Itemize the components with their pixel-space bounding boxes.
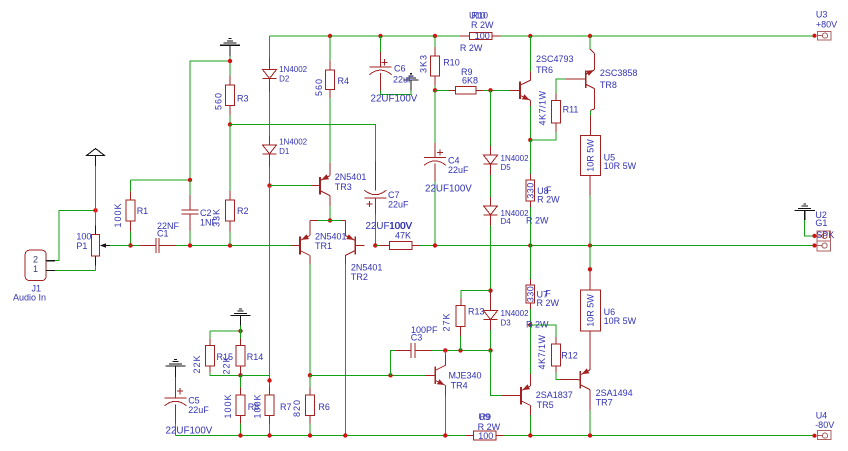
svg-text:22K: 22K xyxy=(221,355,231,374)
svg-text:2SC4793: 2SC4793 xyxy=(536,54,574,64)
wire: C3 branch riser xyxy=(391,350,396,375)
wire: R15 bottom to divider node xyxy=(210,373,241,376)
wire: ground net to R3 top and C2/R1 branch xyxy=(229,56,231,76)
svg-text:TR6: TR6 xyxy=(536,65,553,75)
wire: R11 top to TR8 base xyxy=(556,79,566,93)
junction dot D3 top / R13 link xyxy=(488,288,492,292)
wire: C6 bottom elbow to earth xyxy=(381,91,412,95)
svg-text:-80V: -80V xyxy=(815,420,834,430)
svg-text:22UF100V: 22UF100V xyxy=(371,93,418,104)
wire: J1 pin1 to P1 bottom xyxy=(55,269,96,271)
svg-text:C6: C6 xyxy=(394,64,406,74)
svg-text:10R 5W: 10R 5W xyxy=(586,294,596,327)
junction dot output rail at 330 column xyxy=(528,243,532,247)
svg-text:R9: R9 xyxy=(480,412,492,422)
resistor R10 3K3 xyxy=(418,47,459,86)
svg-text:100: 100 xyxy=(475,31,490,41)
wire: TR6 emitter node to R11 bottom xyxy=(530,132,556,140)
junction dot signal at C2 xyxy=(188,243,192,247)
junction dot signal at R1 xyxy=(128,243,132,247)
wire: R1 top to C2 top link xyxy=(131,179,191,181)
svg-text:R 2W: R 2W xyxy=(537,195,560,205)
svg-text:R 2W: R 2W xyxy=(537,298,560,308)
wire: divider node to R7 column xyxy=(241,375,270,385)
svg-text:P1: P1 xyxy=(76,241,87,251)
junction dot G1 upper pin xyxy=(812,234,816,238)
resistor U5 10R 5W power box xyxy=(580,116,636,196)
wire: P1 wiper to signal line xyxy=(110,245,131,247)
svg-text:C7: C7 xyxy=(388,190,400,200)
capacitor C3 100PF xyxy=(395,325,438,358)
svg-text:27K: 27K xyxy=(442,312,452,331)
svg-text:22uF: 22uF xyxy=(393,75,414,85)
wire: R10 top from rail xyxy=(434,36,436,47)
svg-text:330: 330 xyxy=(526,182,536,199)
resistor 47K horizontal (TR2 base) xyxy=(379,230,420,249)
wire: R14 bottom green xyxy=(240,366,242,375)
wire: D1 bottom to TR3 base node xyxy=(269,167,271,186)
svg-text:10R 5W: 10R 5W xyxy=(604,161,637,171)
svg-text:2N5401: 2N5401 xyxy=(315,232,347,242)
junction dot output rail at G1 connector xyxy=(812,243,816,247)
resistor U9/R9 100 R 2W horizontal in bottom rail xyxy=(466,412,504,441)
resistor R6 820 xyxy=(292,388,330,424)
wire: D2 bottom to cross at y=124.5 xyxy=(269,92,271,136)
svg-text:560: 560 xyxy=(214,92,224,110)
junction dot P1 top node xyxy=(93,208,97,212)
wire: D4 bottom crossing output rail down to D3 top xyxy=(490,226,492,291)
resistor R3 560 xyxy=(214,76,249,116)
svg-text:22uF: 22uF xyxy=(448,165,469,175)
svg-text:820: 820 xyxy=(292,399,302,417)
svg-text:R 2W: R 2W xyxy=(526,319,549,329)
wire: R3 bottom to feedback node xyxy=(229,115,231,125)
junction dot U6 top pin xyxy=(588,267,592,271)
wire: U5 bottom to output rail xyxy=(589,195,591,245)
resistor R11 4K7/1W xyxy=(538,90,579,132)
svg-text:10R 5W: 10R 5W xyxy=(586,139,596,172)
svg-text:TR7: TR7 xyxy=(596,397,613,407)
svg-text:100K: 100K xyxy=(113,202,123,227)
wire: R8 top green xyxy=(240,375,242,387)
svg-text:R10: R10 xyxy=(472,11,489,21)
capacitor C6 22uF 22UF100V polarized xyxy=(370,52,418,104)
wire: R1 top green segment xyxy=(130,180,132,192)
ground (earth) symbol top left near R3 xyxy=(220,39,240,56)
junction dot bottom rail at U4 connector xyxy=(812,434,816,438)
wire: R7 bottom to bottom rail xyxy=(269,424,271,436)
connector U3 +80V supply xyxy=(816,9,837,40)
wire: TR5 collector to bottom rail xyxy=(529,415,531,436)
svg-text:R2: R2 xyxy=(237,206,249,216)
svg-text:1: 1 xyxy=(33,264,38,274)
junction dot bottom rail at R8 xyxy=(238,433,242,437)
junction dot ground node at R3 top xyxy=(228,59,232,63)
wire: R1 bottom to signal wire xyxy=(130,232,132,246)
svg-text:D2: D2 xyxy=(279,74,290,83)
junction dot R14 top earth node xyxy=(238,329,242,333)
wire: earth stub to R14 top xyxy=(240,325,242,338)
wire: R8 bottom to bottom rail xyxy=(240,424,242,436)
svg-text:10R 5W: 10R 5W xyxy=(604,316,637,326)
wire: TR2 collector column down to bottom rail xyxy=(344,264,346,436)
wire: VAS node to R9 left xyxy=(435,89,448,91)
svg-text:R 2W: R 2W xyxy=(460,43,483,53)
junction dot TR5 emitter node xyxy=(528,323,532,327)
svg-text:22uF: 22uF xyxy=(388,200,409,210)
svg-text:4K7/1W: 4K7/1W xyxy=(538,90,548,125)
wire: lower 330 resistor bottom to TR5 emitter node xyxy=(529,309,531,325)
junction dot VAS rail at D3 xyxy=(488,348,492,352)
svg-text:3K3: 3K3 xyxy=(418,54,428,73)
wire: C2 bottom to signal wire xyxy=(189,231,191,246)
ground (earth) symbol at C6 xyxy=(403,74,418,91)
wire: output rail y=245.5 xyxy=(435,245,815,247)
wire: R10 bottom to VAS node xyxy=(434,86,436,91)
svg-text:1N4002: 1N4002 xyxy=(501,154,530,163)
junction dot bottom rail at TR5 collector xyxy=(528,433,532,437)
transistor TR1 2N5401 xyxy=(291,220,347,264)
wire: TR2 base to 47K left xyxy=(375,245,379,247)
capacitor C7 22uF polarized (plus at bottom) xyxy=(364,162,413,233)
junction dot TR4 base rail at C3 branch xyxy=(388,373,392,377)
junction dot bottom rail at TR4 emitter xyxy=(443,433,447,437)
junction dot VAS rail at TR4 collector xyxy=(443,348,447,352)
wire: D5 top segment xyxy=(490,90,492,146)
wire: C5 bottom to bottom rail xyxy=(175,423,177,435)
svg-text:D5: D5 xyxy=(501,163,512,172)
svg-text:R13: R13 xyxy=(468,306,485,316)
svg-text:G1: G1 xyxy=(815,218,827,228)
wire: R12 bottom to TR7 base xyxy=(556,373,560,380)
svg-text:+80V: +80V xyxy=(816,19,837,29)
wire: R6 top green xyxy=(309,375,311,387)
svg-text:D1: D1 xyxy=(279,147,290,156)
resistor R15 22K xyxy=(192,339,233,374)
svg-text:TR8: TR8 xyxy=(600,80,617,90)
ground (earth) symbol at G1 upper pin xyxy=(795,204,815,220)
junction dot bottom rail at TR7 collector xyxy=(588,433,592,437)
wire: C4 bottom to output rail xyxy=(434,181,436,246)
wire: P1 bottom green xyxy=(95,266,97,271)
svg-text:R3: R3 xyxy=(237,94,249,104)
diode D4 1N4002 xyxy=(484,197,530,226)
svg-text:R1: R1 xyxy=(137,206,149,216)
svg-text:SPK: SPK xyxy=(816,230,834,240)
wire: C6 top from rail xyxy=(380,36,382,52)
svg-text:22UF100V: 22UF100V xyxy=(425,183,472,194)
svg-text:2SA1837: 2SA1837 xyxy=(536,390,573,400)
svg-text:2N5401: 2N5401 xyxy=(351,262,383,272)
wire: R15 top green xyxy=(209,331,211,339)
svg-text:U3: U3 xyxy=(816,9,828,19)
svg-text:1N4002: 1N4002 xyxy=(501,309,530,318)
wire: 47K right to output rail xyxy=(420,245,435,247)
svg-text:R11: R11 xyxy=(563,104,579,114)
svg-text:6K8: 6K8 xyxy=(462,76,478,86)
wire: R2 top segment xyxy=(229,125,231,192)
diode D2 1N4002 xyxy=(263,58,308,92)
wire: TR4 base rail y=375.35 xyxy=(310,374,426,376)
resistor U10/R10 100 R 2W horizontal in top rail xyxy=(460,11,501,53)
wire: +80V top rail right segment xyxy=(492,35,815,37)
resistor U7 330 R 2W lower driver emitter xyxy=(526,279,560,330)
wire: +80V top rail left segment xyxy=(270,35,470,37)
wire: C4 top column xyxy=(434,90,436,143)
junction dot R7 top xyxy=(267,378,271,382)
wire: feedback link y=124.5 to C7 branch xyxy=(230,125,375,162)
capacitor C2 1NF xyxy=(182,195,218,231)
wire: main input signal line y=245.5 xyxy=(110,245,140,247)
svg-text:R6: R6 xyxy=(318,402,330,412)
svg-text:1N4002: 1N4002 xyxy=(279,65,308,74)
junction dot TR6 emitter node xyxy=(528,138,532,142)
wire: R6 bottom to bottom rail xyxy=(309,424,311,436)
ground (earth) symbol above R14 xyxy=(230,309,250,326)
wire: TR6 emitter down to driver node xyxy=(529,106,531,140)
svg-text:R7: R7 xyxy=(280,402,292,412)
wire: R15 R14 top link xyxy=(210,330,241,332)
svg-text:F: F xyxy=(546,185,552,195)
svg-text:R 2W: R 2W xyxy=(471,20,494,30)
svg-text:TR2: TR2 xyxy=(351,272,368,282)
svg-text:TR5: TR5 xyxy=(537,400,554,410)
wire: R13 bottom green xyxy=(460,336,462,351)
wire: R2 bottom to signal wire xyxy=(229,232,231,246)
ground (earth) symbol above C5 xyxy=(165,359,185,377)
svg-text:C3: C3 xyxy=(411,332,423,342)
transistor TR3 2N5401 xyxy=(311,163,366,206)
wire: TR4 emitter to bottom rail xyxy=(444,396,446,436)
wire: TR2 base node vertical through C7 xyxy=(374,214,376,246)
connector J1 Audio In xyxy=(13,250,55,302)
resistor R4 560 xyxy=(314,61,349,99)
wire: TR7 collector to bottom rail xyxy=(589,411,591,436)
wire: TR4 collector green xyxy=(444,350,446,354)
ground triangle symbol above P1 xyxy=(87,149,105,167)
connector U4 -80V supply xyxy=(815,411,834,440)
resistor R12 4K7/1W xyxy=(537,334,578,372)
wire: LTP emitter rail y=220.4 xyxy=(318,219,341,221)
svg-text:100K: 100K xyxy=(223,393,233,418)
junction dot output rail at U5 xyxy=(588,243,592,247)
svg-text:2SA1494: 2SA1494 xyxy=(596,388,633,398)
connector G1 speaker output SPK xyxy=(815,210,834,251)
svg-text:2: 2 xyxy=(33,255,38,265)
transistor TR5 2SA1837 xyxy=(502,374,573,415)
wire: VAS collector rail C3 right to D3 node xyxy=(432,349,491,351)
junction dot top rail at TR6 collector xyxy=(528,34,532,38)
svg-text:D4: D4 xyxy=(501,217,512,226)
junction dot TR2 base node xyxy=(373,243,377,247)
wire: upper 330 resistor top green xyxy=(529,140,531,174)
svg-text:100: 100 xyxy=(478,431,493,441)
wire: TR5 emitter riser green part xyxy=(529,325,531,374)
wire: D1 node down the long left column through signal crossing to R7 xyxy=(269,186,271,376)
diode D1 1N4002 xyxy=(263,136,308,167)
junction dot bottom rail at R6 xyxy=(308,433,312,437)
transistor TR2 2N5401 xyxy=(341,220,382,281)
svg-text:U4: U4 xyxy=(816,411,828,421)
wire: U5 top green gap from TR8 emitter xyxy=(590,110,592,115)
svg-text:R10: R10 xyxy=(443,58,460,68)
junction dot at C2 top xyxy=(188,178,192,182)
svg-text:1NF: 1NF xyxy=(200,217,218,227)
svg-text:330: 330 xyxy=(526,286,536,303)
svg-text:22K: 22K xyxy=(192,354,202,373)
svg-text:D3: D3 xyxy=(501,319,512,328)
resistor R9 6K8 horizontal xyxy=(448,67,483,94)
junction dot TR4 base rail at R6 xyxy=(308,373,312,377)
diode D5 1N4002 xyxy=(484,146,530,175)
svg-text:R14: R14 xyxy=(247,352,264,362)
svg-text:100K: 100K xyxy=(253,393,263,418)
wire: R4 bottom to TR3 emitter column xyxy=(329,98,331,163)
resistor R8 100K xyxy=(223,388,259,424)
wire: TR5 emitter node to R12 top xyxy=(530,325,556,337)
junction dot top rail at C6 xyxy=(378,34,382,38)
wire: R13 top link xyxy=(461,291,491,298)
junction dot top rail at R4 xyxy=(328,34,332,38)
svg-text:TR3: TR3 xyxy=(335,182,352,192)
transistor TR4 MJE340 xyxy=(426,355,482,396)
junction dot VAS node R10/R9/C4 xyxy=(433,88,437,92)
capacitor C5 22uF 22UF100V polarized xyxy=(165,377,213,436)
junction dot output rail at C4/47K xyxy=(433,243,437,247)
junction dot TR3 base node at D1 xyxy=(267,183,271,187)
transistor TR7 2SA1494 xyxy=(560,341,633,411)
svg-text:100V: 100V xyxy=(389,221,412,232)
wire: J1 pin2 to P1 top node xyxy=(55,210,96,260)
resistor R14 22K xyxy=(221,339,263,376)
resistor R1 100K xyxy=(113,192,148,232)
resistor R2 33K xyxy=(211,191,248,232)
wire: C2 top green segment xyxy=(189,180,191,195)
svg-text:2N5401: 2N5401 xyxy=(335,172,367,182)
junction dot signal at R2 xyxy=(228,243,232,247)
resistor U6 10R 5W power box xyxy=(580,269,636,341)
resistor R7 100K xyxy=(253,386,292,424)
junction dot bottom rail at R7 xyxy=(267,433,271,437)
svg-text:R12: R12 xyxy=(561,350,578,360)
wire: TR3 collector to LTP tail xyxy=(329,206,331,220)
diode D3 1N4002 xyxy=(484,291,530,330)
svg-text:R4: R4 xyxy=(338,76,350,86)
wire: U6 top from output rail xyxy=(589,246,591,270)
svg-text:Audio In: Audio In xyxy=(13,293,46,303)
junction dot feedback node at R3/R2 xyxy=(228,122,232,126)
wire: D3 node down to TR5 base xyxy=(491,350,503,395)
junction dot TR6 base node at D5 top xyxy=(488,88,492,92)
transistor TR8 2SC3858 xyxy=(566,36,637,110)
junction dot top rail at U3 connector xyxy=(812,34,816,38)
junction dot top rail at R10 xyxy=(433,34,437,38)
svg-text:560: 560 xyxy=(314,78,324,96)
wire: D5 to D4 link xyxy=(490,175,492,197)
capacitor C1 22NF coupling xyxy=(140,221,180,253)
wire: D2 column from top rail xyxy=(269,36,271,58)
svg-text:C1: C1 xyxy=(157,229,169,239)
svg-text:1N4002: 1N4002 xyxy=(279,138,308,147)
svg-text:TR4: TR4 xyxy=(451,381,468,391)
wire: R4 top from rail xyxy=(329,36,331,61)
svg-text:R 2W: R 2W xyxy=(526,216,549,226)
wire: earth to G1 upper pin xyxy=(805,220,815,236)
svg-text:F: F xyxy=(545,289,551,299)
junction dot bottom rail at TR2 collector column xyxy=(343,433,347,437)
resistor R13 27K xyxy=(442,298,485,336)
wire: -80V bottom rail right segment xyxy=(503,435,814,437)
resistor U8 330 R 2W upper driver emitter xyxy=(526,174,561,226)
junction dot VAS rail at R13 bottom xyxy=(458,348,462,352)
svg-text:22uF: 22uF xyxy=(188,405,209,415)
wire: -80V bottom rail left segment xyxy=(176,435,466,437)
wire: P1 top to ground triangle xyxy=(95,166,97,226)
wire: upper 330 resistor bottom to output rail xyxy=(529,207,531,246)
junction dot LTP tail node xyxy=(328,218,332,222)
junction dot top rail at TR8 collector xyxy=(588,34,592,38)
svg-text:22UF100V: 22UF100V xyxy=(166,425,213,436)
potentiometer P1 100 xyxy=(76,226,110,266)
svg-text:4K7/1W: 4K7/1W xyxy=(537,334,547,369)
transistor TR6 2SC4793 xyxy=(510,36,574,106)
junction dot divider node R14/R8 xyxy=(238,373,242,377)
wire: D3 bottom to VAS collector rail xyxy=(490,330,492,350)
wire: TR1 collector column down to TR4 base rail xyxy=(309,264,311,375)
svg-text:2SC3858: 2SC3858 xyxy=(600,68,638,78)
wire: lower 330 resistor top from output rail xyxy=(529,246,531,279)
svg-text:TR1: TR1 xyxy=(315,241,332,251)
svg-text:MJE340: MJE340 xyxy=(449,370,482,380)
wire: TR3 base link xyxy=(270,185,312,187)
wire: R9 right to TR6 base node xyxy=(483,89,510,91)
capacitor C4 22uF 22UF100V polarized xyxy=(424,143,472,194)
